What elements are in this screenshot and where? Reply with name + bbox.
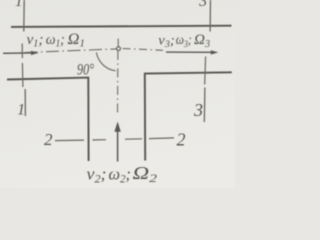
section line 1-1 top tick xyxy=(23,0,25,32)
section line 3-3 top tick xyxy=(209,0,211,32)
wire: left bottom wall and left wall of vertical pipe xyxy=(7,78,89,161)
svg-text:3: 3 xyxy=(198,0,207,10)
svg-text:ω2;: ω2; xyxy=(109,164,132,185)
wire: vertical centerline stub above junction xyxy=(117,39,119,47)
section line 3-3 middle dash xyxy=(204,57,207,85)
svg-text:1: 1 xyxy=(15,0,23,10)
svg-text:3: 3 xyxy=(193,100,203,120)
section line 3-3 bottom tick xyxy=(203,88,206,123)
arrow v1 flow xyxy=(3,52,33,54)
wire: vertical centerline of vertical pipe (dash-dot) xyxy=(117,51,119,114)
wire: horizontal centerline right (dash-dot) xyxy=(123,49,164,51)
wire: horizontal centerline left (dash-dot) xyxy=(3,49,117,54)
wire: top wall of horizontal pipe xyxy=(11,26,232,27)
svg-text:2: 2 xyxy=(177,129,186,149)
section line 1-1 bottom tick xyxy=(24,89,26,116)
arrow v2 flow xyxy=(117,130,119,162)
section line 2-2 dashes xyxy=(55,139,84,142)
svg-text:ω1;: ω1; xyxy=(46,32,65,50)
node O: junction center circle xyxy=(117,47,121,51)
section line 1-1 middle dashes xyxy=(21,44,23,59)
arrow v3 flow xyxy=(166,51,212,53)
svg-text:90°: 90° xyxy=(77,62,95,79)
angle arc 90 deg at junction xyxy=(96,53,115,71)
wire: right bottom wall and right wall of vertical pipe xyxy=(145,72,232,160)
svg-text:2: 2 xyxy=(44,130,53,149)
svg-text:ω3;: ω3; xyxy=(176,33,192,50)
svg-text:1: 1 xyxy=(17,102,25,119)
